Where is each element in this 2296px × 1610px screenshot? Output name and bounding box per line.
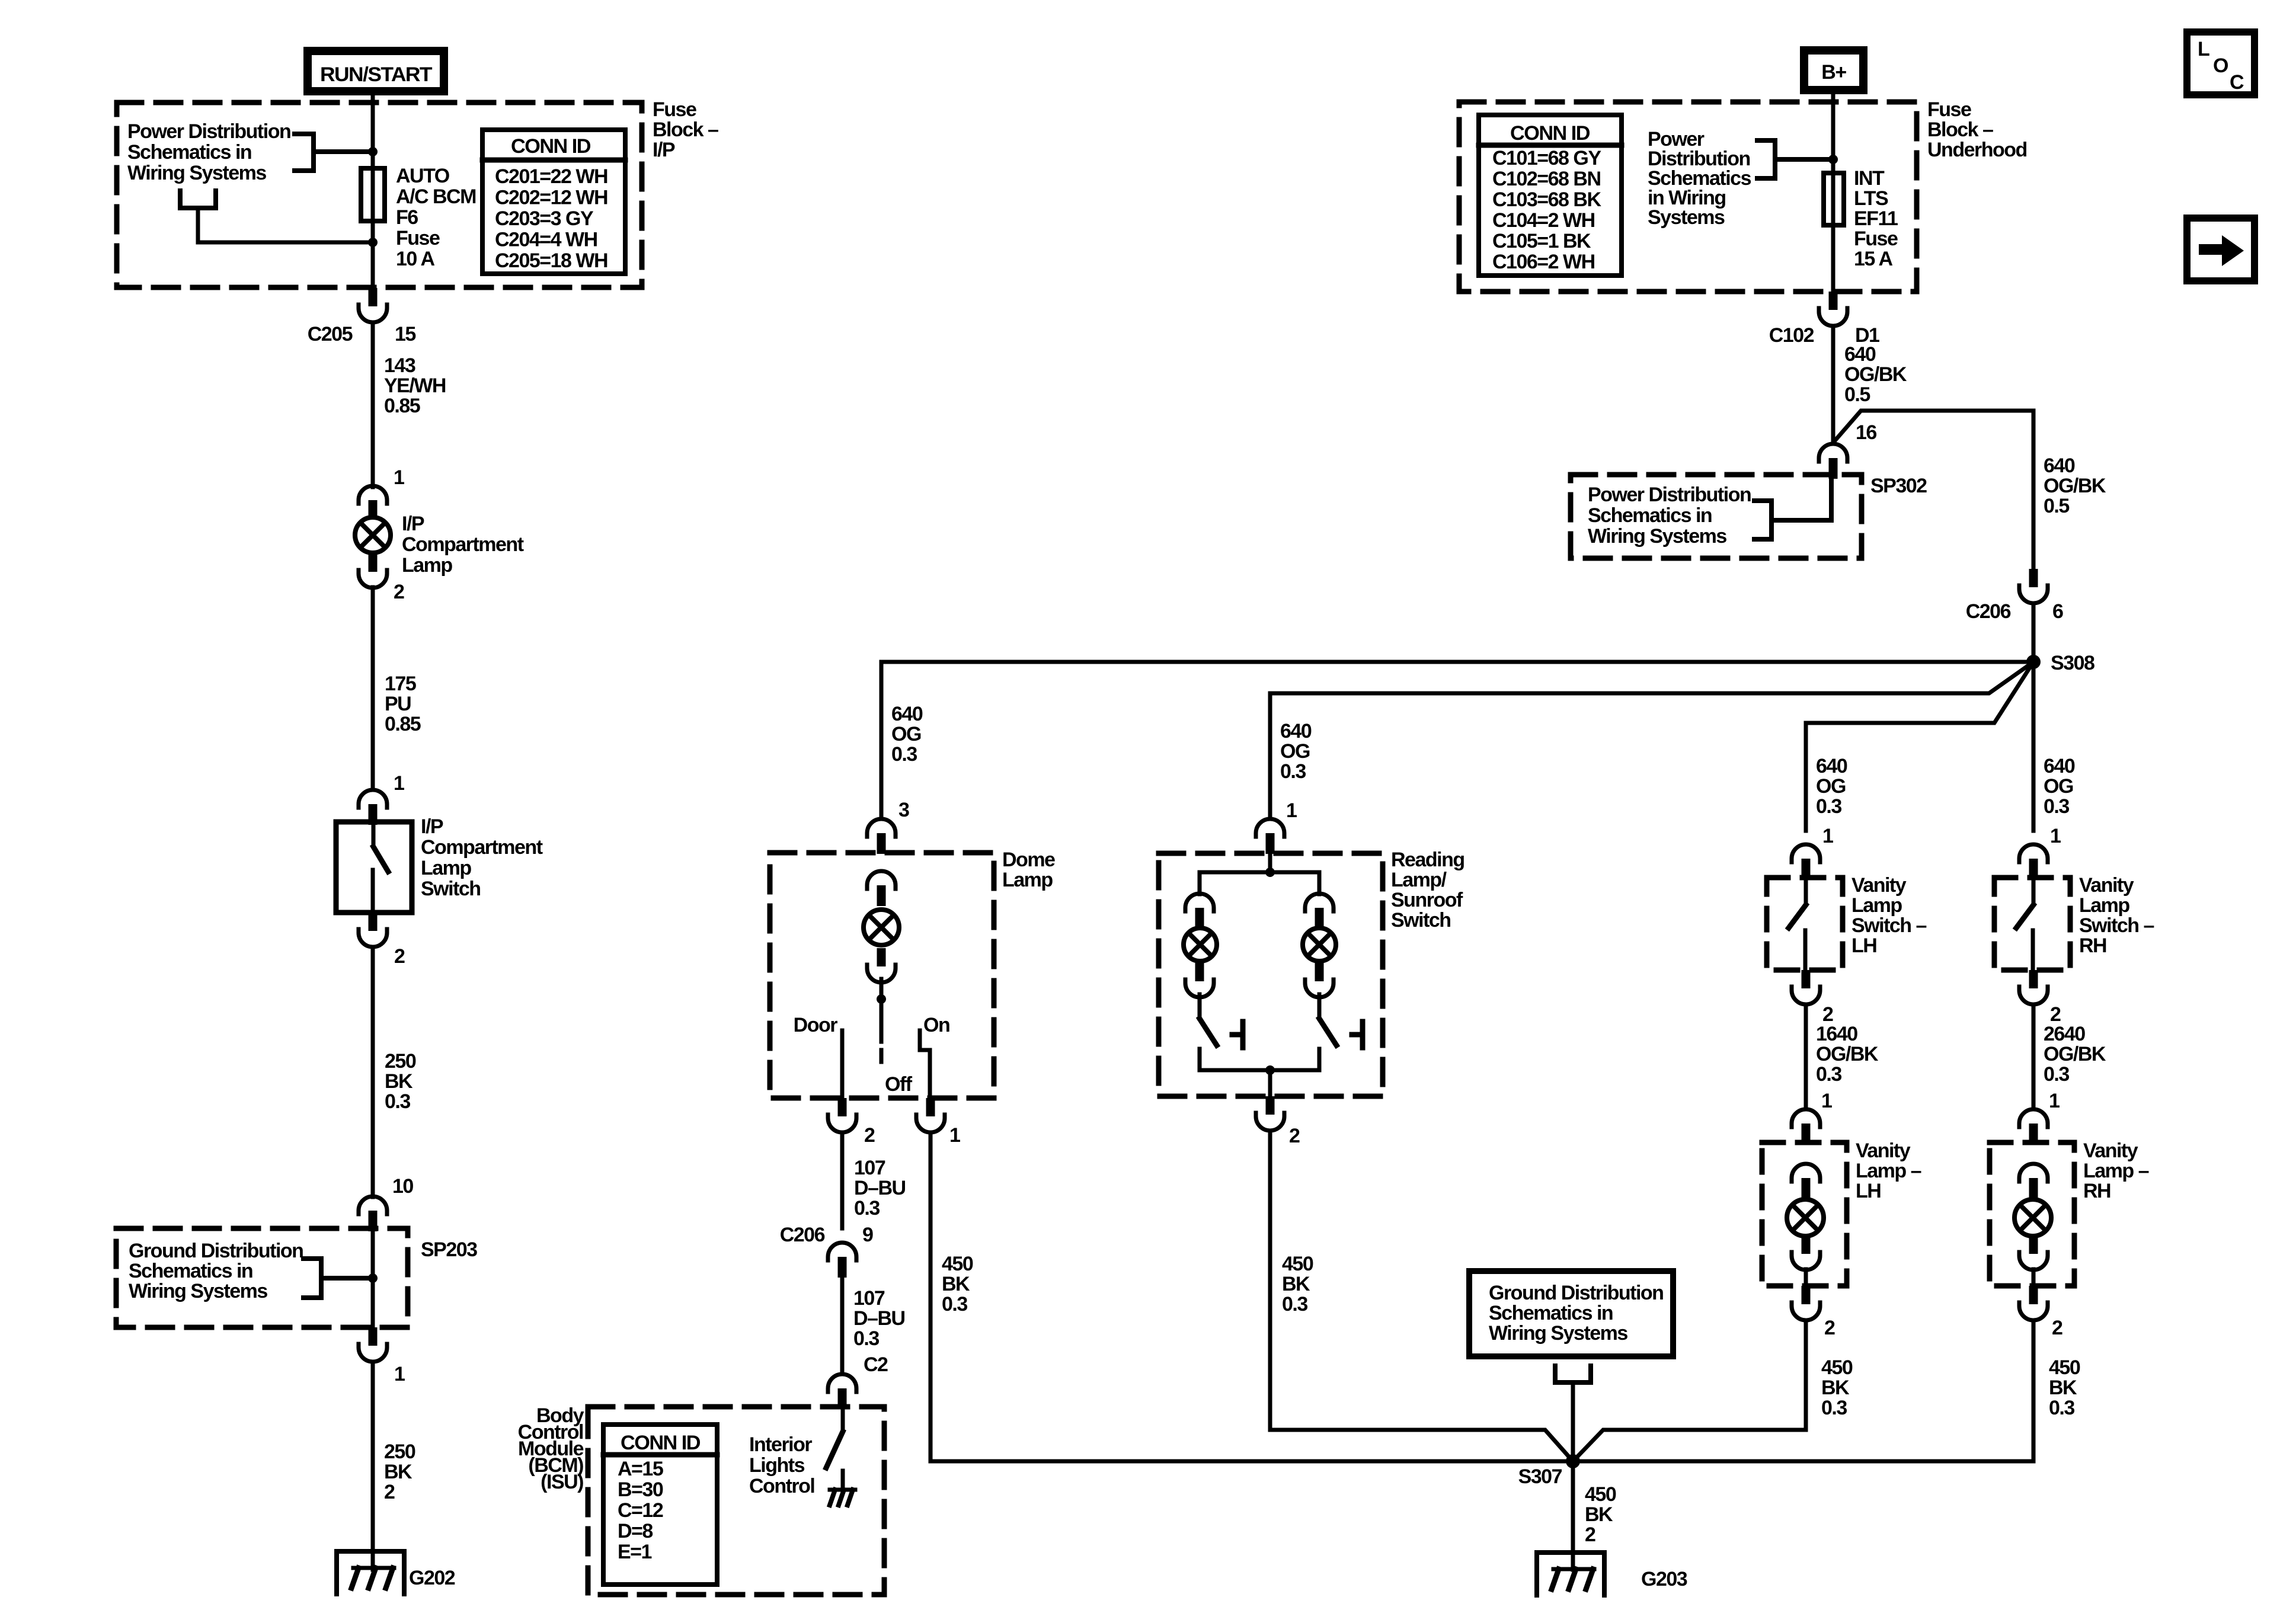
svg-text:143: 143 — [384, 354, 415, 377]
svg-text:C101=68 GY: C101=68 GY — [1492, 147, 1601, 169]
wire reading pin 2 to S307 — [1270, 1131, 1573, 1461]
chassis ground inside BCM — [841, 1471, 845, 1490]
svg-text:Switch: Switch — [1391, 909, 1451, 932]
svg-text:Wiring Systems: Wiring Systems — [1489, 1322, 1627, 1345]
svg-text:2: 2 — [394, 945, 405, 968]
dome On contact — [920, 1030, 930, 1099]
svg-text:OG: OG — [891, 723, 921, 745]
svg-text:CONN ID: CONN ID — [621, 1432, 701, 1454]
connector pin 2 of reading lamp — [1266, 1096, 1275, 1115]
connector below dome bulb — [877, 948, 886, 966]
right reading switch blade — [1318, 994, 1322, 1019]
svg-text:Vanity: Vanity — [1851, 874, 1907, 897]
svg-text:0.3: 0.3 — [1821, 1397, 1847, 1419]
svg-text:D=8: D=8 — [618, 1520, 653, 1542]
svg-text:640: 640 — [2044, 755, 2075, 777]
svg-text:107: 107 — [854, 1157, 885, 1179]
left reading bulb — [1184, 928, 1217, 961]
svg-text:OG/BK: OG/BK — [2044, 1043, 2106, 1065]
svg-text:S308: S308 — [2051, 652, 2094, 674]
wire S308 to vanity RH — [2032, 662, 2036, 831]
svg-text:Power Distribution: Power Distribution — [127, 120, 290, 143]
interior lights control switch — [841, 1409, 845, 1432]
svg-text:L: L — [2198, 38, 2210, 60]
svg-text:10 A: 10 A — [396, 248, 435, 270]
svg-text:On: On — [923, 1014, 949, 1036]
right branch to bottom bar — [1318, 1049, 1322, 1070]
svg-text:PU: PU — [385, 693, 411, 715]
svg-text:Wiring Systems: Wiring Systems — [1588, 525, 1726, 548]
svg-text:Schematics in: Schematics in — [1489, 1302, 1613, 1324]
svg-text:Wiring Systems: Wiring Systems — [127, 162, 266, 184]
svg-text:Systems: Systems — [1648, 206, 1725, 229]
svg-text:640: 640 — [891, 703, 923, 725]
wire fuse to C205 — [371, 221, 375, 289]
svg-text:Lamp/: Lamp/ — [1391, 869, 1447, 891]
svg-text:BK: BK — [1585, 1503, 1613, 1526]
svg-text:C206: C206 — [1966, 600, 2011, 623]
right reading bulb — [1303, 928, 1336, 961]
wire vanity RH down to S307 rail — [2032, 1320, 2036, 1461]
svg-text:G203: G203 — [1641, 1568, 1687, 1590]
ground G202 — [337, 1551, 404, 1594]
svg-text:Lamp: Lamp — [421, 857, 471, 879]
svg-text:0.3: 0.3 — [853, 1327, 879, 1350]
svg-text:1640: 1640 — [1816, 1023, 1857, 1045]
dome Door contact — [840, 1030, 845, 1099]
svg-text:Lamp –: Lamp – — [2083, 1160, 2149, 1182]
svg-text:OG/BK: OG/BK — [1816, 1043, 1879, 1065]
svg-text:Lamp: Lamp — [1851, 894, 1902, 917]
svg-text:C2: C2 — [864, 1353, 888, 1376]
wire 640 OG/BK 0.5 — [1831, 326, 1835, 444]
svg-text:0.3: 0.3 — [1816, 795, 1841, 818]
dome switch common blade (Off position) — [880, 999, 884, 1042]
svg-text:450: 450 — [1821, 1356, 1853, 1379]
connector below left bulb — [1195, 963, 1204, 981]
wire vanity LH to S307 — [1573, 1320, 1806, 1461]
svg-text:BK: BK — [942, 1273, 970, 1295]
svg-text:C204=4 WH: C204=4 WH — [495, 229, 597, 251]
svg-text:CONN ID: CONN ID — [511, 135, 591, 158]
vanity lamp switch LH dashed box — [1767, 878, 1843, 970]
svg-text:1: 1 — [2049, 1090, 2060, 1112]
CONN ID table underhood — [1479, 115, 1622, 276]
node dome switch pivot — [880, 979, 884, 999]
reading lamp dashed box — [1159, 853, 1383, 1096]
svg-text:Fuse: Fuse — [653, 98, 696, 121]
svg-text:175: 175 — [385, 673, 416, 695]
reference box Ground Distribution Schematics (S307) — [1469, 1271, 1673, 1356]
svg-text:0.85: 0.85 — [384, 395, 420, 417]
left reading switch blade — [1198, 994, 1202, 1019]
svg-text:Underhood: Underhood — [1927, 139, 2027, 161]
svg-text:1: 1 — [394, 772, 404, 795]
svg-text:1: 1 — [2050, 825, 2061, 847]
switch blade inside lamp switch — [372, 825, 376, 847]
svg-text:Vanity: Vanity — [2079, 874, 2134, 897]
svg-text:Schematics in: Schematics in — [129, 1260, 252, 1282]
left reading switch contact — [1240, 1022, 1246, 1048]
svg-text:2: 2 — [394, 581, 404, 603]
svg-text:Vanity: Vanity — [2083, 1140, 2138, 1162]
svg-text:O: O — [2213, 55, 2228, 77]
svg-text:Dome: Dome — [1002, 849, 1055, 871]
svg-text:AUTO: AUTO — [396, 165, 450, 187]
wire C206-9 to C2 — [840, 1278, 845, 1374]
wire 175 PU — [371, 587, 375, 790]
svg-text:15: 15 — [395, 323, 415, 345]
svg-text:C: C — [2230, 71, 2244, 94]
bracket to stub inside SP302 — [1754, 501, 1771, 539]
svg-text:A=15: A=15 — [618, 1458, 663, 1480]
wire to vanity lamp RH — [2032, 1004, 2036, 1109]
vanity switch LH blade — [1804, 879, 1808, 905]
svg-text:C205: C205 — [308, 323, 353, 345]
svg-text:OG/BK: OG/BK — [2044, 475, 2106, 497]
svg-text:Fuse: Fuse — [1927, 98, 1971, 121]
vanity lamp LH dashed box — [1762, 1142, 1847, 1286]
connector pin 2 below lamp — [369, 553, 378, 572]
svg-text:C205=18 WH: C205=18 WH — [495, 249, 607, 272]
svg-text:Block –: Block – — [1927, 119, 1993, 141]
svg-text:Reading: Reading — [1391, 849, 1464, 871]
branch bar to both reading bulbs — [1200, 872, 1319, 894]
I/P compartment lamp — [355, 517, 391, 553]
vanity lamp switch RH dashed box — [1994, 878, 2070, 970]
svg-text:F6: F6 — [396, 206, 418, 229]
svg-text:0.3: 0.3 — [1280, 760, 1306, 783]
svg-text:SP302: SP302 — [1870, 475, 1927, 497]
svg-text:I/P: I/P — [421, 815, 443, 838]
svg-text:0.3: 0.3 — [2049, 1397, 2074, 1419]
svg-text:0.3: 0.3 — [1816, 1063, 1841, 1086]
svg-text:C103=68 BK: C103=68 BK — [1492, 188, 1601, 211]
svg-text:640: 640 — [2044, 454, 2075, 477]
svg-text:Off: Off — [885, 1073, 913, 1096]
wire 250 BK 0.3 — [371, 947, 375, 1197]
svg-text:C106=2 WH: C106=2 WH — [1492, 251, 1595, 273]
svg-text:(ISU): (ISU) — [541, 1471, 583, 1493]
wire bracket to node below fuse — [198, 208, 373, 242]
svg-text:2: 2 — [384, 1481, 395, 1503]
wire bracket to S307 — [1571, 1382, 1575, 1461]
wire Door pin to C206 — [840, 1132, 845, 1228]
svg-text:Compartment: Compartment — [421, 836, 543, 859]
svg-text:LH: LH — [1851, 934, 1876, 957]
svg-text:1: 1 — [1286, 799, 1297, 822]
fuse F6 10A — [361, 168, 385, 221]
wire through SP203 — [371, 1231, 375, 1327]
svg-text:0.5: 0.5 — [1844, 383, 1870, 406]
svg-text:1: 1 — [394, 466, 404, 489]
svg-text:0.3: 0.3 — [2044, 1063, 2069, 1086]
svg-text:0.3: 0.3 — [2044, 795, 2069, 818]
node below fuse F6 — [368, 238, 378, 247]
svg-text:Block –: Block – — [653, 119, 718, 141]
connector pin 2 vanity lamp RH — [2029, 1286, 2038, 1304]
svg-text:Control: Control — [749, 1475, 814, 1497]
svg-text:OG/BK: OG/BK — [1844, 363, 1907, 386]
svg-text:OG: OG — [2044, 775, 2073, 798]
connector pin 2 below switch — [369, 913, 378, 931]
wire to vanity lamp LH — [1804, 1004, 1808, 1109]
svg-text:A/C BCM: A/C BCM — [396, 185, 476, 208]
svg-text:Door: Door — [794, 1014, 838, 1036]
wire fuse to C102 — [1831, 225, 1835, 292]
svg-text:BK: BK — [385, 1070, 413, 1093]
svg-text:Power Distribution: Power Distribution — [1588, 484, 1751, 506]
connector inside vanity lamp RH — [2019, 1164, 2048, 1182]
svg-text:S307: S307 — [1518, 1465, 1562, 1488]
svg-text:250: 250 — [385, 1050, 416, 1073]
ground rail through S307 — [930, 1459, 2033, 1464]
svg-text:2: 2 — [1289, 1125, 1300, 1147]
svg-text:Switch –: Switch – — [2079, 914, 2154, 937]
power feed box B+ — [1804, 50, 1863, 90]
goes-to bracket under box — [1555, 1366, 1591, 1382]
svg-text:BK: BK — [2049, 1377, 2077, 1399]
body control module dashed box — [588, 1407, 884, 1595]
arrow legend box — [2187, 218, 2255, 281]
fuse block I/P dashed box — [117, 103, 642, 287]
svg-text:C102=68 BN: C102=68 BN — [1492, 168, 1601, 190]
bracket to node (underhood) — [1757, 140, 1775, 178]
wire C206 to S308 — [2032, 603, 2036, 662]
wire 143 YE/WH — [371, 322, 375, 487]
svg-text:Lamp: Lamp — [1002, 869, 1053, 891]
left reading bulb connector — [1185, 894, 1214, 911]
svg-text:1: 1 — [949, 1124, 960, 1147]
svg-text:LTS: LTS — [1854, 187, 1888, 210]
svg-text:Schematics in: Schematics in — [1588, 504, 1712, 527]
svg-text:Schematics in: Schematics in — [127, 141, 251, 164]
connector below vanity bulb LH — [1802, 1235, 1811, 1254]
connector C102 pin D1 — [1829, 292, 1838, 310]
svg-text:EF11: EF11 — [1854, 207, 1898, 230]
splice S307 — [1566, 1454, 1580, 1468]
connector pin 1 below SP203 — [369, 1327, 378, 1346]
svg-text:OG: OG — [1280, 740, 1310, 763]
vanity switch RH blade — [2032, 879, 2036, 905]
svg-text:Fuse: Fuse — [396, 227, 440, 249]
svg-text:BK: BK — [1282, 1273, 1310, 1295]
splice SP302 dashed box — [1571, 475, 1862, 558]
svg-text:I/P: I/P — [402, 513, 424, 535]
svg-text:D–BU: D–BU — [854, 1177, 906, 1199]
svg-text:E=1: E=1 — [618, 1541, 652, 1563]
svg-text:SP203: SP203 — [421, 1238, 477, 1261]
wire S308 to vanity LH — [1806, 662, 2033, 831]
svg-text:Sunroof: Sunroof — [1391, 889, 1463, 911]
svg-text:Vanity: Vanity — [1856, 1140, 1911, 1162]
svg-text:16: 16 — [1856, 421, 1876, 444]
svg-text:YE/WH: YE/WH — [384, 375, 446, 397]
svg-text:G202: G202 — [409, 1567, 455, 1589]
connector pin 2 (Door) — [838, 1098, 847, 1116]
fuse block underhood dashed box — [1459, 102, 1917, 292]
wire B+ to fuse block underhood — [1831, 94, 1835, 292]
svg-text:0.3: 0.3 — [385, 1090, 410, 1113]
svg-text:0.5: 0.5 — [2044, 495, 2069, 517]
svg-text:640: 640 — [1280, 720, 1312, 742]
LOC legend box — [2187, 32, 2255, 95]
bottom bar and node — [1200, 1068, 1319, 1073]
svg-text:C102: C102 — [1769, 324, 1814, 347]
right reading switch contact — [1360, 1022, 1366, 1048]
svg-text:2: 2 — [1824, 1317, 1835, 1339]
svg-text:1: 1 — [394, 1363, 405, 1385]
connector below vanity bulb RH — [2029, 1235, 2038, 1254]
svg-text:Switch: Switch — [421, 878, 481, 900]
svg-text:I/P: I/P — [653, 139, 675, 161]
fuse INT LTS EF11 15A — [1824, 173, 1844, 225]
svg-text:BK: BK — [1821, 1377, 1850, 1399]
I/P compartment lamp switch box — [336, 822, 412, 913]
svg-text:Lights: Lights — [749, 1454, 805, 1477]
wire S308 to reading lamp — [1270, 662, 2033, 693]
svg-text:Interior: Interior — [749, 1433, 812, 1456]
svg-text:Fuse: Fuse — [1854, 228, 1898, 250]
svg-text:Lamp: Lamp — [402, 554, 452, 577]
svg-text:0.85: 0.85 — [385, 713, 421, 735]
svg-text:Switch –: Switch – — [1851, 914, 1927, 937]
connector C206 pin 6 — [2029, 569, 2038, 587]
splice S308 — [2026, 655, 2041, 669]
connector pin 1 (On) — [926, 1098, 935, 1116]
connector pin 2 vanity switch RH — [2029, 970, 2038, 988]
svg-text:0.3: 0.3 — [854, 1197, 880, 1219]
svg-text:Lamp –: Lamp – — [1856, 1160, 1921, 1182]
svg-text:D–BU: D–BU — [853, 1307, 905, 1330]
connector inside dome lamp — [867, 871, 896, 889]
svg-text:B+: B+ — [1821, 61, 1846, 84]
connector C205 pin 15 — [369, 288, 378, 306]
svg-text:450: 450 — [1585, 1483, 1616, 1506]
wire S308 to dome lamp — [881, 662, 2033, 819]
connector below right bulb — [1315, 963, 1324, 981]
wire On pin to S307 — [930, 1132, 1571, 1461]
svg-text:Ground Distribution: Ground Distribution — [129, 1240, 303, 1262]
connector pin 2 vanity lamp LH — [1802, 1286, 1811, 1304]
node on wire above fuse F6 — [368, 147, 378, 156]
svg-text:INT: INT — [1854, 167, 1885, 190]
CONN ID table I/P — [482, 130, 625, 274]
bracket to node on wire — [295, 134, 314, 171]
wire branch to right riser — [1833, 411, 2033, 443]
svg-text:10: 10 — [392, 1175, 413, 1198]
svg-text:1: 1 — [1822, 825, 1833, 847]
svg-text:C104=2 WH: C104=2 WH — [1492, 209, 1595, 232]
svg-text:450: 450 — [942, 1253, 973, 1275]
svg-text:Lamp: Lamp — [2079, 894, 2129, 917]
svg-text:C201=22 WH: C201=22 WH — [495, 165, 607, 188]
svg-text:0.3: 0.3 — [891, 743, 917, 766]
vanity bulb RH — [2014, 1199, 2051, 1236]
svg-text:C202=12 WH: C202=12 WH — [495, 187, 607, 209]
svg-text:450: 450 — [2049, 1356, 2080, 1379]
connector pin 2 vanity switch LH — [1802, 970, 1811, 988]
svg-text:OG: OG — [1816, 775, 1846, 798]
svg-text:Wiring Systems: Wiring Systems — [129, 1280, 267, 1302]
svg-text:640: 640 — [1844, 343, 1876, 366]
svg-text:2: 2 — [864, 1124, 875, 1147]
node SP203 — [368, 1273, 378, 1283]
wire RUN/START to fuse block — [371, 95, 375, 289]
dome lamp bulb — [864, 910, 899, 945]
svg-text:RH: RH — [2079, 934, 2106, 957]
power feed box RUN/START — [308, 51, 444, 91]
splice SP203 dashed box — [116, 1228, 408, 1327]
right reading bulb connector — [1305, 894, 1334, 911]
left branch to bottom bar — [1198, 1049, 1202, 1070]
svg-text:640: 640 — [1816, 755, 1847, 777]
svg-text:C=12: C=12 — [618, 1499, 663, 1522]
svg-text:0.3: 0.3 — [1282, 1293, 1307, 1315]
wire S307 to G203 — [1571, 1461, 1575, 1570]
svg-text:LH: LH — [1856, 1180, 1881, 1202]
vanity bulb LH — [1787, 1199, 1824, 1236]
svg-text:2640: 2640 — [2044, 1023, 2085, 1045]
svg-text:Ground Distribution: Ground Distribution — [1489, 1282, 1663, 1304]
svg-text:1: 1 — [1821, 1090, 1832, 1112]
svg-text:15 A: 15 A — [1854, 248, 1893, 270]
goes-to bracket under reference text — [180, 191, 216, 208]
svg-text:3: 3 — [898, 799, 909, 821]
svg-text:C206: C206 — [780, 1224, 825, 1246]
svg-text:2: 2 — [1585, 1523, 1595, 1546]
svg-text:C105=1 BK: C105=1 BK — [1492, 230, 1591, 252]
vanity lamp RH dashed box — [1990, 1142, 2074, 1286]
svg-text:B=30: B=30 — [618, 1478, 663, 1501]
svg-text:Compartment: Compartment — [402, 533, 524, 556]
svg-text:BK: BK — [384, 1461, 412, 1483]
CONN ID table BCM — [603, 1425, 717, 1585]
svg-text:6: 6 — [2052, 600, 2063, 623]
bracket to node SP203 — [303, 1259, 321, 1298]
svg-text:2: 2 — [2052, 1317, 2062, 1339]
svg-text:107: 107 — [853, 1287, 885, 1310]
svg-text:450: 450 — [1282, 1253, 1313, 1275]
svg-text:250: 250 — [384, 1441, 415, 1463]
connector inside vanity lamp LH — [1792, 1164, 1820, 1182]
dome lamp dashed box — [770, 853, 994, 1098]
node above fuse EF11 — [1828, 155, 1838, 164]
svg-text:RH: RH — [2083, 1180, 2110, 1202]
svg-text:9: 9 — [862, 1224, 873, 1246]
svg-text:C203=3 GY: C203=3 GY — [495, 207, 594, 230]
svg-text:CONN ID: CONN ID — [1510, 122, 1590, 145]
svg-text:RUN/START: RUN/START — [320, 63, 433, 86]
ground G203 — [1537, 1553, 1604, 1595]
node reading lamp feed — [1268, 854, 1272, 872]
svg-text:0.3: 0.3 — [942, 1293, 967, 1315]
wire 250 BK 2 — [371, 1362, 375, 1570]
